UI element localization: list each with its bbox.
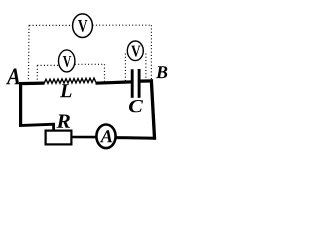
wire: V2 left dotted lead vertical down to wire [36,65,38,82]
label C [129,100,143,112]
wire: V1 right dotted lead vertical down to node B wire [150,25,152,80]
voltmeter V1 across L and C [73,14,93,38]
wire: right vertical, node B corner down to bottom-right corner [151,79,154,139]
node A label [6,69,20,85]
wire: V3 left dotted lead vertical [124,54,126,81]
label R [56,114,69,127]
wire: ammeter to bottom-right corner [115,136,156,140]
wire: V1 left dotted lead horizontal [29,24,72,26]
wire: left vertical from node A to bottom-left corner [19,82,22,126]
label L [60,84,72,97]
wire: bottom-left horizontal to resistor stub [19,124,55,125]
voltmeter V2 across L [58,50,74,72]
wire: V2 right dotted lead horizontal [75,63,105,65]
wire: V1 left dotted lead vertical down to node A wire [27,25,30,81]
wire: inductor to capacitor left plate [96,82,132,83]
wire: V2 right dotted lead vertical down to wire [104,64,106,82]
resistor R box [46,131,72,145]
wire: capacitor right plate to node B corner [140,79,153,82]
ammeter A [96,125,115,149]
wire: V3 right dotted lead vertical [145,54,147,81]
wire: stub down into resistor box [52,123,55,131]
voltmeter V3 across C [127,41,143,61]
capacitor C left plate [131,69,134,98]
capacitor C right plate [138,69,141,98]
wire: resistor to ammeter [72,136,98,139]
wire: main horizontal from node A to inductor [19,81,45,85]
wire: V2 left dotted lead horizontal [37,64,59,66]
inductor L zigzag [44,78,96,84]
wire: V1 right dotted lead horizontal [93,24,152,26]
node B label [156,66,167,78]
